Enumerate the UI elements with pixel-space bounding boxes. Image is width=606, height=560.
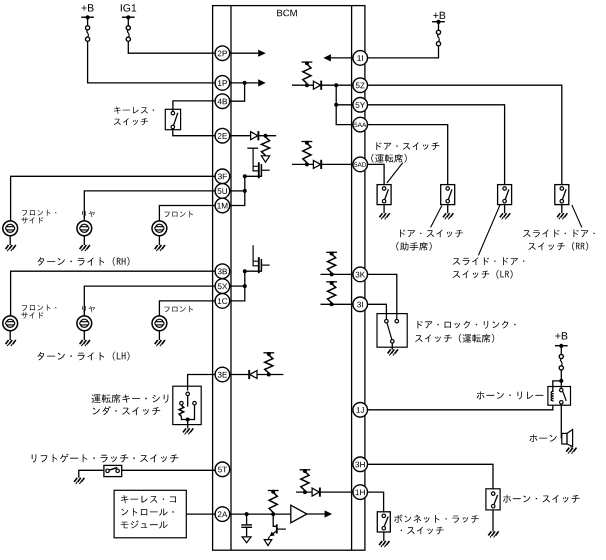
wire keyless module to pin 2A (186, 513, 214, 515)
junction resistor node 2A (271, 512, 275, 516)
transistor Q3 collector stub (277, 528, 286, 530)
fuse for horn (559, 346, 563, 370)
horn relay contacts (560, 388, 564, 404)
+B power feed label (82, 4, 94, 11)
wire keyless bottom to pin 2E (173, 129, 215, 136)
wire key cylinder to ground (187, 420, 189, 429)
liftgate switch blade (109, 468, 117, 471)
ground rear RH (80, 245, 90, 251)
wire pin 5U to junction (229, 190, 245, 192)
pointer RR switch label (572, 205, 582, 228)
pointer driver switch label (387, 163, 403, 183)
BCM pin 2E (215, 128, 230, 143)
wire 3K inside box (396, 314, 398, 320)
horn speaker (562, 430, 573, 447)
pull-up T-bar R3 (268, 490, 279, 494)
wire pin 2E internal (229, 135, 276, 137)
wire pin 1C to front lamp LH (159, 301, 214, 316)
wire front lamp RH to ground (158, 236, 160, 245)
wire pin 5Z to slide door switch RR (367, 85, 562, 185)
front turn lamp RH (152, 221, 167, 236)
open arrow down at R1 (261, 156, 269, 162)
pull-up T-bar R6 (326, 252, 337, 256)
pull-up T-bar R2 (263, 352, 274, 356)
wire pin 3K internal (321, 273, 354, 275)
pointer LR switch label (478, 205, 500, 256)
door switch passenger (助手席) (441, 185, 455, 205)
wire passenger door switch ground (447, 205, 449, 214)
BCM pin 5AA (353, 117, 368, 132)
label rear RH (82, 211, 95, 217)
ground door lock link (388, 349, 398, 355)
wire emitter to open arrow (268, 536, 270, 539)
keyless switch label line2 (114, 118, 148, 125)
ground key cylinder (183, 428, 193, 434)
keyless switch blade (174, 113, 178, 126)
wire diode to pin 5AD (322, 163, 354, 165)
BCM pin 5T (215, 462, 230, 477)
diode D4 at 5AD (313, 160, 321, 169)
wire liftgate switch to pin 5T (122, 469, 215, 471)
label rear LH (82, 306, 95, 312)
key cylinder top contact (186, 392, 190, 396)
ground driver door switch (379, 213, 389, 219)
wire buffer output (307, 513, 325, 515)
bonnet switch box (377, 512, 390, 532)
label bonnet switch line2 (401, 527, 444, 535)
wire pin 1H to bonnet switch (367, 492, 383, 511)
wire pin 1M to front lamp RH (159, 206, 214, 221)
horn switch contacts (491, 492, 495, 508)
wire horn switch to ground (492, 510, 494, 532)
BCM label (277, 10, 297, 17)
label front-side LH line2 (21, 312, 43, 319)
resistor R7 above 3I node (328, 284, 336, 303)
label horn (529, 434, 556, 442)
keyless module label line1 (121, 495, 176, 503)
horn switch blade (494, 495, 498, 505)
label slide door RR line2 (528, 242, 588, 251)
wire pin 5AD to door switch driver (367, 164, 384, 184)
junction 3K resistor node (330, 272, 334, 276)
front turn lamp LH (152, 316, 167, 331)
junction at 2E node (264, 134, 268, 138)
open arrow below Q3 (264, 540, 272, 546)
wire front lamp LH to ground (158, 331, 160, 340)
keyless module label line2 (121, 508, 173, 516)
arrow internal 1I (323, 54, 331, 61)
keyless switch contacts (171, 111, 175, 128)
BCM pin 2P (215, 46, 230, 61)
wire pin 3I to door lock link switch (367, 304, 386, 319)
pull-up T-bar R7 (326, 281, 337, 285)
door switch driver (運転席) (377, 185, 391, 205)
ground front-side LH (6, 340, 16, 346)
label door switch driver line2 (371, 154, 406, 163)
liftgate switch box (104, 465, 122, 476)
transistor Q1 (output FET for RH) (245, 162, 270, 178)
wire pin 3E to key cylinder switch (188, 375, 215, 391)
diode D3 at 5Z (313, 81, 321, 90)
label slide door RR line1 (523, 230, 595, 238)
BCM pin 1M (215, 198, 230, 213)
resistor R8 above 1H node (301, 472, 309, 491)
keyless switch box (165, 109, 180, 129)
resistor R2 above 3E node (265, 355, 273, 373)
wire pin 1H internal (296, 491, 312, 493)
label door switch passenger line2 (396, 242, 431, 251)
BCM pin 3B (215, 264, 230, 279)
label key cylinder line2 (93, 406, 160, 415)
horn relay coil (551, 391, 554, 401)
fuse for +B (86, 17, 90, 41)
wire pin 5Y to slide door switch LR (367, 105, 504, 185)
label door switch driver line1 (376, 142, 439, 150)
wire pin 5Z internal (292, 84, 313, 86)
ground RR switch (557, 213, 567, 219)
label front RH (165, 211, 194, 217)
bonnet switch contacts (382, 514, 386, 530)
ground rear LH (80, 340, 90, 346)
junction 3F node (243, 174, 247, 178)
+B feed label for 1I (433, 12, 445, 19)
horn relay box (548, 387, 571, 406)
+B feed bar for 1I (432, 20, 445, 24)
wire pin 3K to door lock link switch (367, 274, 397, 313)
wire keyless top to pin 4B (173, 101, 215, 111)
door lock link switch box (377, 314, 407, 348)
diode D5 at 1H (312, 488, 320, 497)
wire pin 1J to horn relay (367, 405, 553, 410)
pull-up T-bar R5 (302, 141, 313, 145)
BCM pin 1I (353, 51, 368, 66)
arrow internal 2P (258, 50, 266, 57)
fuse for IG1 (126, 17, 130, 41)
wire to relay coil (553, 381, 562, 392)
key cylinder right contact (193, 401, 197, 405)
wire RR switch ground (561, 205, 563, 214)
wire liftgate switch to ground (79, 470, 104, 478)
ground liftgate (74, 478, 84, 484)
wire pin 5X to rear lamp LH (84, 286, 214, 316)
junction 5Z resistor node (305, 83, 309, 87)
open arrow below C1 (242, 537, 251, 543)
keyless module label line3 (121, 520, 168, 528)
BCM pin 5X (215, 279, 230, 294)
wire junction to pin 4B (229, 83, 245, 101)
wire 5Z node down to 5Y,5AA (334, 85, 353, 124)
key cylinder resistor (179, 405, 184, 416)
bonnet switch blade (384, 517, 388, 527)
BCM pin 1P (215, 76, 230, 91)
wire pin 3B to front-side lamp LH (11, 271, 215, 316)
door lock link contacts (385, 319, 399, 343)
ground front LH (155, 340, 165, 346)
BCM pin 4B (215, 94, 230, 109)
ground LR switch (500, 213, 510, 219)
wire to capacitor C1 (246, 514, 248, 524)
BCM pin 5AD (353, 157, 368, 172)
BCM pin 5Y (353, 98, 368, 113)
wire pin 5U to rear lamp RH (84, 191, 214, 221)
slide door switch RR (555, 185, 569, 205)
op-amp buffer U1 (291, 505, 307, 523)
key cylinder switch box (173, 386, 201, 424)
wire IG1 to pin 2P (128, 41, 214, 53)
horn relay blade (563, 392, 566, 401)
junction 1H resistor node (303, 490, 307, 494)
ground horn (566, 448, 576, 454)
wire door lock link to ground (391, 343, 393, 349)
wire fuse to horn relay (559, 370, 563, 388)
label slide door LR line2 (453, 270, 513, 279)
ground horn switch (488, 531, 498, 537)
transistor Q3 base bar (276, 524, 278, 533)
fuse for 1I feed (436, 22, 440, 46)
label horn relay (477, 391, 544, 399)
BCM pin 5U (215, 184, 230, 199)
wire pin 1I internal (329, 57, 354, 59)
wire bonnet switch to ground (383, 532, 385, 541)
wire 3B junction down to 5X,1C (229, 271, 247, 301)
key cylinder bottom wiring (181, 405, 194, 421)
wire 3F junction down to 5U,1M (229, 176, 247, 205)
wire pin 5AD internal (292, 163, 313, 165)
label turn light RH (37, 257, 129, 266)
wire pin 2P internal (229, 52, 258, 54)
capacitor C1 (241, 525, 252, 527)
wire driver door switch ground (383, 205, 385, 214)
label key cylinder line1 (92, 394, 169, 403)
ground front-side RH (6, 245, 16, 251)
label front-side RH line2 (21, 217, 43, 224)
wire pin 5X to junction (229, 285, 245, 287)
arrow buffer output (325, 510, 333, 517)
label liftgate latch switch (32, 454, 179, 463)
wire pin 1P internal with junction (229, 81, 258, 85)
rear turn lamp RH (77, 221, 92, 236)
junction 3I resistor node (330, 302, 334, 306)
BCM pin 2A (215, 507, 230, 522)
label door switch passenger line1 (400, 230, 463, 238)
liftgate switch contacts (106, 469, 120, 473)
BCM pin 3E (215, 367, 230, 382)
transistor Q3 emitter with arrow (270, 531, 277, 537)
wire pin 3F to front-side lamp RH (11, 176, 215, 221)
resistor R4 above 5Z node (303, 64, 311, 84)
wire horn relay to horn (560, 404, 562, 438)
arrow internal 1P (258, 79, 266, 86)
wire pin 3E internal (229, 374, 283, 376)
transistor Q2 (output FET for LH) (245, 257, 270, 273)
key cylinder left contact (180, 401, 184, 405)
resistor R6 above 3K node (328, 254, 336, 273)
label front-side RH line1 (22, 210, 56, 216)
pointer passenger switch label (431, 206, 442, 228)
slide door switch LR (498, 185, 512, 205)
label front-side LH line1 (22, 305, 56, 311)
FET Q2 gate feed (252, 245, 254, 261)
+B feed bar (81, 15, 94, 19)
IG1 power feed label (121, 4, 136, 11)
wire LR switch ground (504, 205, 506, 214)
resistor R1 below 2E node (261, 137, 269, 155)
BCM pin 1H (353, 485, 368, 500)
BCM pin 5Z (353, 78, 368, 93)
junction 3E node (267, 373, 271, 377)
horn switch box (486, 489, 500, 510)
wire front-side lamp LH to ground (9, 331, 11, 340)
keyless switch label line1 (114, 106, 154, 114)
FET Q1 gate feed T-bar (247, 148, 258, 166)
door lock link blade (387, 323, 392, 339)
wire front-side lamp RH to ground (9, 236, 11, 245)
ground passenger door switch (443, 213, 453, 219)
label door lock link line1 (418, 321, 516, 329)
BCM pin 3H (353, 457, 368, 472)
wire +B to pin 1I (367, 46, 438, 58)
resistor R5 above 5AD node (303, 143, 311, 163)
wire pin 3H to horn switch (367, 464, 493, 489)
label turn light LH (37, 352, 129, 361)
wire capacitor to arrow (246, 527, 248, 537)
label door lock link line2 (415, 334, 494, 343)
label slide door LR line1 (453, 257, 525, 265)
wire horn to ground (570, 447, 572, 448)
wire diode to pin 5Z (322, 83, 354, 87)
front-side turn lamp RH (3, 221, 18, 236)
BCM pin 3F (215, 169, 230, 184)
junction capacitor node (245, 512, 249, 516)
diode D1 at 2E (251, 131, 259, 140)
label bonnet switch line1 (394, 515, 479, 523)
wire junction to pin 5Y (336, 104, 353, 106)
wire pin 2A internal (229, 513, 291, 515)
wire pin 5AA to door switch passenger (367, 125, 447, 185)
ground bonnet switch (379, 541, 389, 547)
keyless control module box (114, 490, 186, 538)
label horn switch (503, 495, 580, 503)
BCM pin 3K (353, 267, 368, 282)
pull-up T-bar R4 (302, 61, 313, 65)
wire rear lamp LH to ground (83, 331, 85, 340)
front-side turn lamp LH (3, 316, 18, 331)
diode D2 at 3E (249, 370, 257, 379)
ground front RH (155, 245, 165, 251)
BCM module box outline (213, 6, 365, 551)
pull-up T-bar R8 (300, 469, 311, 473)
BCM pin 1J (353, 403, 368, 418)
key cylinder pole (187, 396, 189, 407)
transistor Q3 wiring (273, 514, 276, 526)
+B horn feed bar (555, 344, 568, 348)
rear turn lamp LH (77, 316, 92, 331)
resistor R3 above 2A node (269, 492, 277, 512)
IG1 feed bar (122, 15, 135, 19)
label front LH (165, 306, 194, 312)
junction 5AD resistor node (305, 162, 309, 166)
junction 3B node (243, 269, 247, 273)
BCM pin 3I (353, 297, 368, 312)
wire +B to pin 1P (88, 41, 215, 83)
wire pin 3I internal (321, 303, 354, 305)
+B horn label (555, 332, 567, 339)
BCM pin 1C (215, 294, 230, 309)
wire rear lamp RH to ground (83, 236, 85, 245)
wire diode to pin 1H (320, 491, 353, 493)
